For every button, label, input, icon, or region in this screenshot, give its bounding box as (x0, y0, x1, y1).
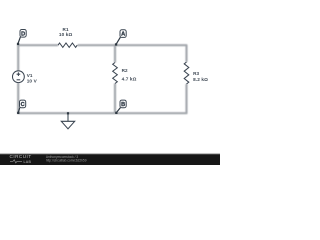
svg-text:B: B (121, 102, 125, 108)
svg-text:10 kΩ: 10 kΩ (59, 32, 73, 37)
resistor R2 (113, 63, 118, 84)
svg-text:R3: R3 (193, 71, 199, 76)
wire top-left: node D net (18, 45, 58, 70)
svg-text:8.2 kΩ: 8.2 kΩ (193, 77, 208, 82)
node D flag (17, 30, 26, 46)
wire top-right: node A net (78, 45, 187, 62)
resistor R3 (184, 62, 189, 84)
svg-text:10 V: 10 V (27, 78, 38, 83)
svg-text:CIRCUIT: CIRCUIT (10, 154, 32, 159)
node C flag (17, 100, 26, 114)
svg-text:4.7 kΩ: 4.7 kΩ (122, 77, 137, 82)
resistor R1 (58, 43, 77, 47)
wire net (gray) (18, 45, 186, 113)
svg-text:V1: V1 (27, 73, 33, 78)
wire middle stub from R2 bottom (114, 84, 116, 114)
svg-text:R2: R2 (122, 68, 128, 73)
svg-text:C: C (21, 102, 25, 108)
wire left-bottom and bottom run (18, 83, 186, 113)
node A flag (115, 30, 126, 46)
watermark bar (0, 154, 222, 168)
labels (dark slate) (27, 27, 208, 83)
svg-text:LAB: LAB (24, 160, 32, 164)
CircuitLab logo (10, 154, 32, 164)
wire middle stub to R2 top (114, 45, 116, 62)
voltage source V1 (13, 71, 25, 83)
watermark text (46, 155, 87, 163)
node B flag (115, 100, 126, 114)
svg-text:A: A (121, 32, 125, 38)
svg-text:http://circuitlab.com/c622h59: http://circuitlab.com/c622h59 (46, 159, 87, 163)
ground (67, 113, 69, 121)
svg-text:D: D (21, 31, 25, 37)
